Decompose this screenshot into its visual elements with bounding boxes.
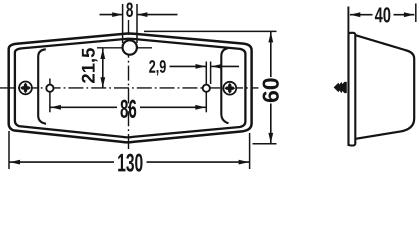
left screw xyxy=(19,82,32,95)
slot edge line xyxy=(210,62,212,85)
dome circle xyxy=(123,40,137,54)
dim 60: text xyxy=(263,78,279,102)
side view: flange xyxy=(349,33,356,146)
dim 130: line and arrows xyxy=(9,160,250,165)
lamp outer contour (front view) xyxy=(9,33,252,142)
dim 8: left arrow xyxy=(100,12,123,17)
dim 40: line and arrows xyxy=(350,12,414,17)
dim 21.5: text xyxy=(82,48,98,83)
right hole extension line xyxy=(205,62,207,113)
dim 8: right arrow xyxy=(137,12,178,17)
lens edge bracket left xyxy=(38,49,46,124)
dome crosshair line xyxy=(97,47,152,49)
dim 86: text xyxy=(120,100,136,118)
lamp inner contour (front view) xyxy=(15,39,246,138)
left hole xyxy=(46,85,53,92)
dim 130: text xyxy=(118,154,142,172)
dim 21.5: arrow line xyxy=(100,49,105,88)
dim 40: right extension line xyxy=(415,4,417,23)
dim 40: text xyxy=(375,7,390,22)
dim 8: extension lines xyxy=(123,4,137,43)
side view: body outline xyxy=(356,35,415,139)
right hole xyxy=(203,85,210,92)
side view: mounting plane line xyxy=(347,7,349,147)
horizontal centerline xyxy=(0,87,259,89)
left hole extension line xyxy=(49,79,51,113)
right screw xyxy=(223,82,236,95)
dim 130: extension lines xyxy=(9,131,250,169)
dim 60: line and arrows xyxy=(268,32,273,143)
side view: screw symbol xyxy=(334,82,347,94)
lens edge bracket right xyxy=(221,48,228,123)
dim 2.9: text xyxy=(149,60,166,75)
dim 2.9: right arrow xyxy=(211,64,239,69)
dim 2.9: left arrow xyxy=(170,64,207,69)
dim 8: text xyxy=(126,2,133,17)
dim 60: extension lines xyxy=(144,31,277,143)
vertical centerline xyxy=(128,20,130,152)
dim 86: line and arrows xyxy=(50,105,206,110)
